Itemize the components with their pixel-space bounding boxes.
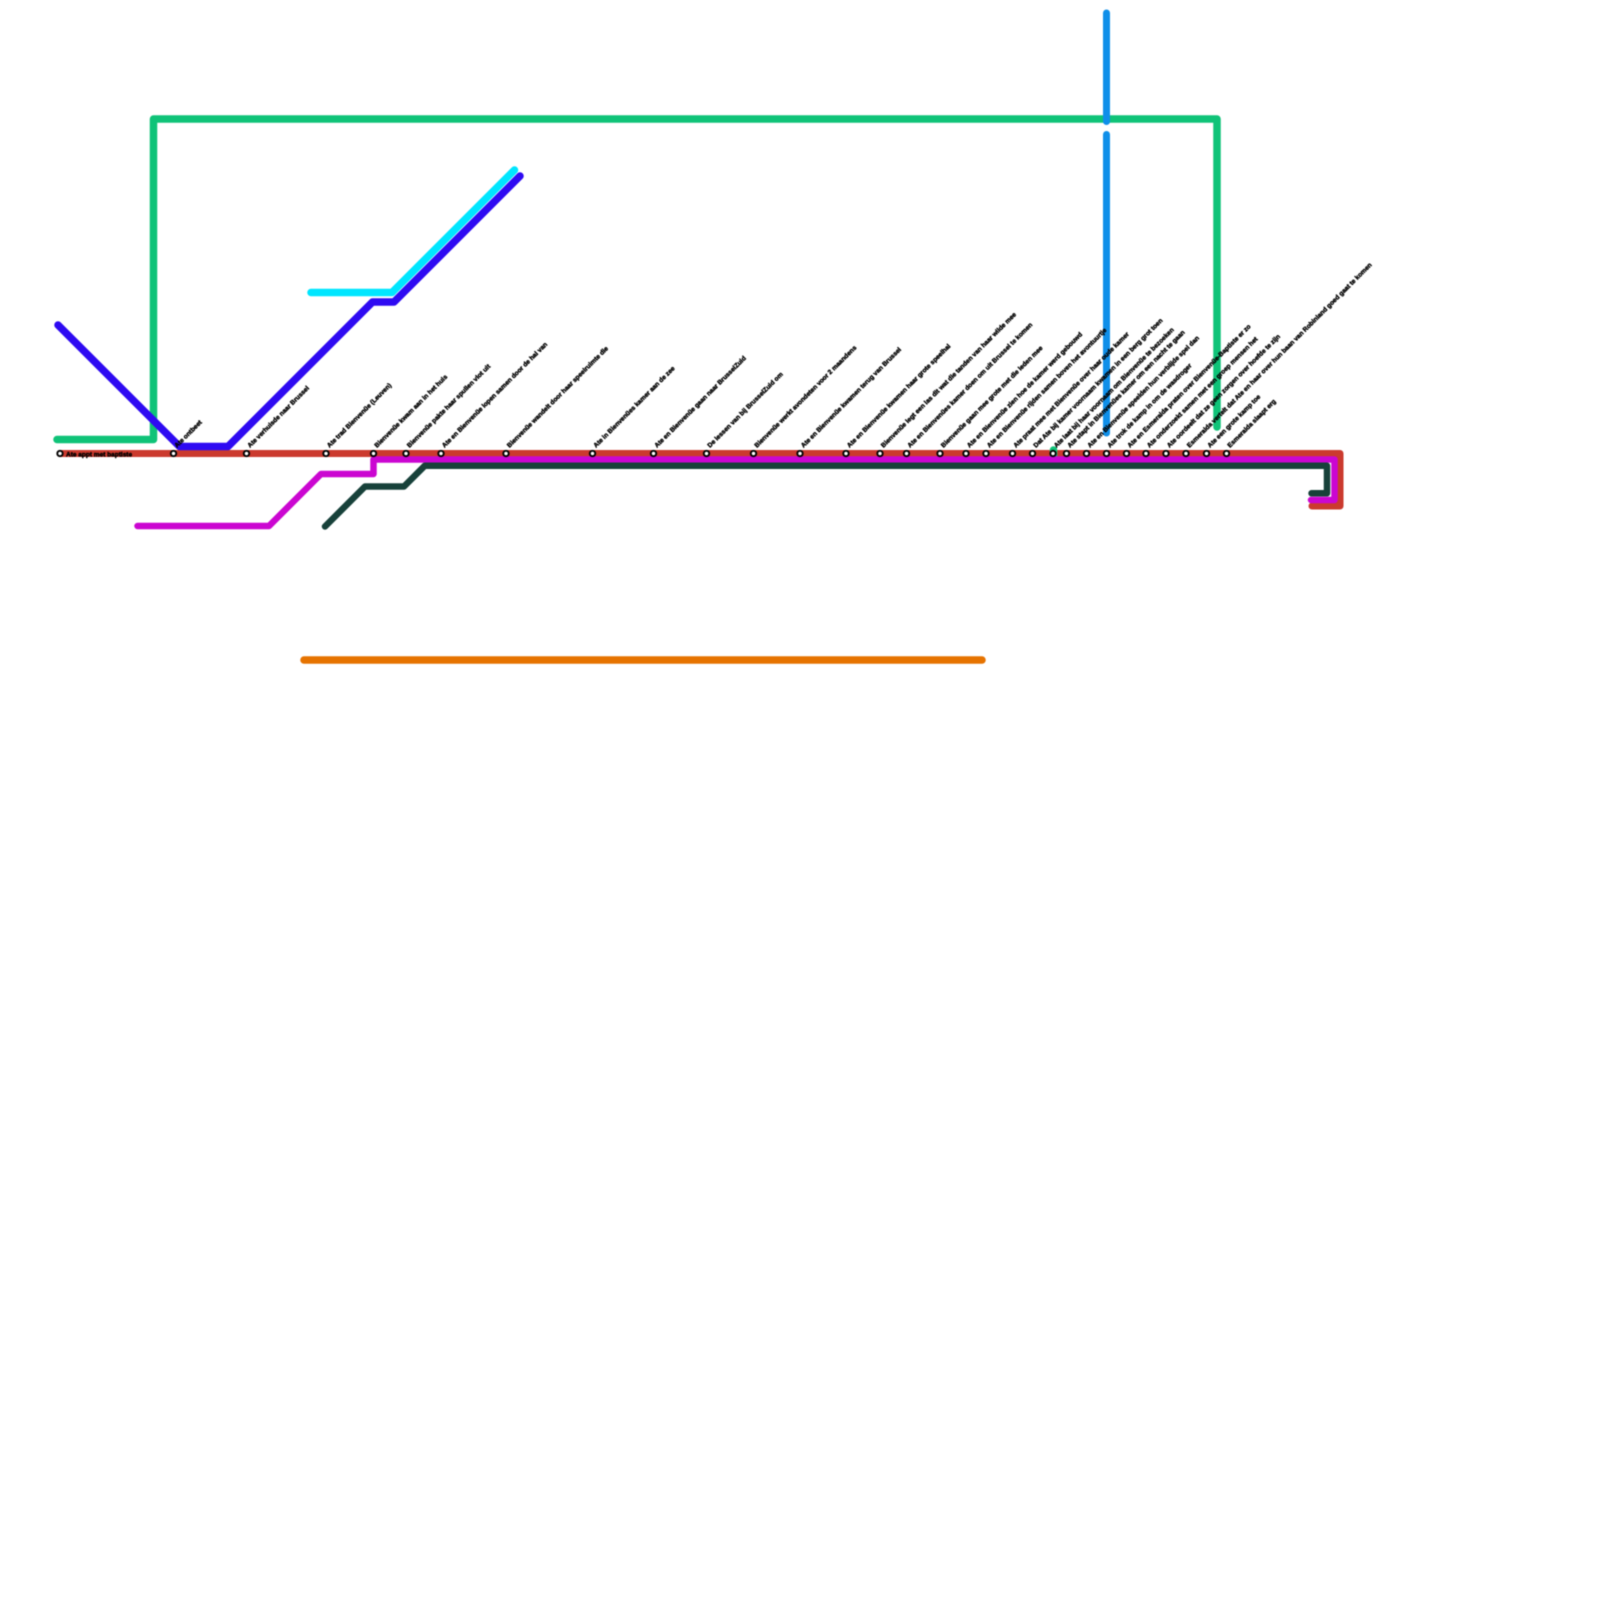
station 23 dot bbox=[1064, 451, 1069, 456]
station 7 dot bbox=[438, 451, 443, 456]
station 12 label bbox=[753, 344, 858, 449]
station 1 label bbox=[66, 452, 132, 459]
station 13 label bbox=[800, 346, 903, 449]
station 6 dot bbox=[403, 451, 408, 456]
blue V line with diagonal branch bbox=[58, 176, 520, 447]
station 16 dot bbox=[904, 451, 909, 456]
station 15 dot bbox=[877, 451, 882, 456]
station 24 dot bbox=[1084, 451, 1089, 456]
station 4 label bbox=[326, 382, 393, 449]
station 19 dot bbox=[983, 451, 988, 456]
station 8 dot bbox=[503, 451, 508, 456]
station 2 dot bbox=[171, 451, 176, 456]
station 26 label bbox=[1126, 323, 1252, 449]
station 24 label bbox=[1086, 335, 1201, 450]
station 5 label bbox=[373, 373, 449, 449]
station 7 label bbox=[441, 341, 549, 449]
station 14 dot bbox=[843, 451, 848, 456]
station 28 label bbox=[1166, 333, 1282, 449]
station 18 dot bbox=[963, 451, 968, 456]
station 9 label bbox=[592, 365, 676, 449]
station 16 label bbox=[906, 322, 1034, 450]
green loop line (big rectangle route) bbox=[57, 119, 1217, 440]
station 30 label bbox=[1206, 393, 1262, 449]
station 3 label bbox=[246, 385, 311, 450]
station 30 dot bbox=[1204, 451, 1209, 456]
station 19 label bbox=[986, 327, 1109, 450]
station 21 dot bbox=[1030, 451, 1035, 456]
station 22 dot bbox=[1050, 451, 1055, 456]
station 4 dot bbox=[323, 451, 328, 456]
station 25 label bbox=[1106, 362, 1193, 449]
station 20 dot bbox=[1010, 451, 1015, 456]
station 20 label bbox=[1012, 331, 1131, 450]
station 22 label bbox=[1053, 327, 1176, 450]
svg-text:Ate appt met baptiste: Ate appt met baptiste bbox=[66, 452, 132, 459]
red main line with right hook bbox=[60, 454, 1340, 507]
cyan line bbox=[311, 170, 515, 293]
station 9 dot bbox=[590, 451, 595, 456]
station 31 label bbox=[1226, 398, 1277, 449]
dodger blue vertical line lower segment bbox=[1103, 135, 1110, 434]
station 27 label bbox=[1146, 335, 1260, 449]
magenta line with right hook bbox=[138, 460, 1335, 527]
dark teal line with right hook bbox=[325, 466, 1327, 527]
station 25 dot bbox=[1104, 451, 1109, 456]
station 1 dot bbox=[57, 451, 62, 456]
station 8 label bbox=[506, 345, 610, 449]
station 26 dot bbox=[1124, 451, 1129, 456]
station 6 label bbox=[406, 363, 493, 450]
station 29 label bbox=[1186, 262, 1374, 450]
dodger blue vertical line upper segment bbox=[1103, 13, 1110, 122]
station 10 dot bbox=[651, 451, 656, 456]
station 27 dot bbox=[1143, 451, 1148, 456]
green stub terminus at station 22 bbox=[1050, 450, 1058, 456]
station 15 label bbox=[880, 311, 1018, 449]
station 14 label bbox=[846, 343, 952, 449]
station 11 dot bbox=[704, 451, 709, 456]
station 18 label bbox=[966, 331, 1084, 449]
station 23 label bbox=[1066, 329, 1186, 449]
station 10 label bbox=[653, 355, 747, 449]
station 17 label bbox=[940, 345, 1045, 450]
station 29 dot bbox=[1183, 451, 1188, 456]
station 31 dot bbox=[1224, 451, 1229, 456]
station 5 dot bbox=[371, 451, 376, 456]
station 2 label bbox=[173, 419, 204, 450]
station 12 dot bbox=[751, 451, 756, 456]
station 3 dot bbox=[244, 451, 249, 456]
station 13 dot bbox=[797, 451, 802, 456]
station 28 dot bbox=[1163, 451, 1168, 456]
station 11 label bbox=[706, 371, 784, 449]
station 17 dot bbox=[937, 451, 942, 456]
orange line bbox=[304, 656, 982, 664]
station 21 label bbox=[1032, 317, 1164, 449]
